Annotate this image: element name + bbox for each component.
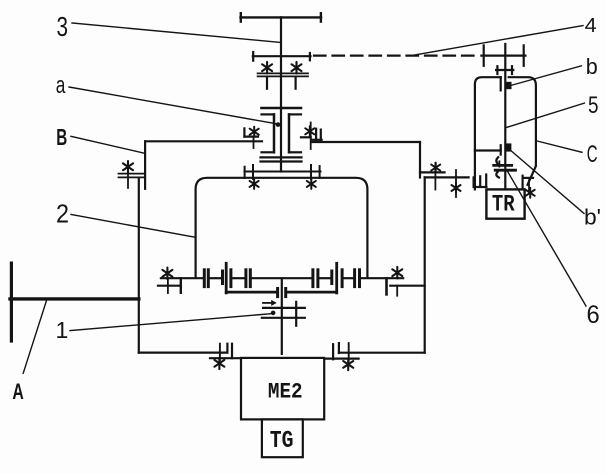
- svg-text:TR: TR: [492, 192, 515, 218]
- svg-text:B: B: [56, 124, 67, 150]
- svg-text:b: b: [586, 54, 598, 79]
- svg-text:5: 5: [588, 92, 599, 119]
- svg-text:TG: TG: [270, 428, 294, 455]
- svg-text:3: 3: [57, 11, 69, 42]
- svg-text:C: C: [587, 141, 598, 168]
- svg-text:b': b': [584, 205, 601, 230]
- svg-text:4: 4: [585, 15, 597, 37]
- svg-text:2: 2: [56, 198, 69, 228]
- svg-text:a: a: [56, 72, 66, 99]
- svg-text:6: 6: [587, 301, 600, 329]
- svg-text:A: A: [12, 379, 23, 404]
- svg-text:1: 1: [56, 317, 69, 343]
- svg-text:ME2: ME2: [268, 379, 303, 404]
